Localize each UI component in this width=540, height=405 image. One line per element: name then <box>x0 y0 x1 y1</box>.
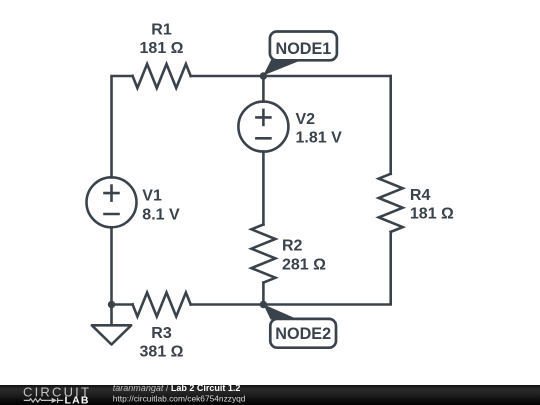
svg-text:R3: R3 <box>151 325 172 342</box>
svg-text:taranmangat / Lab 2 Circuit 1.: taranmangat / Lab 2 Circuit 1.2 <box>113 383 241 393</box>
svg-text:381 Ω: 381 Ω <box>140 344 184 361</box>
resistor R1 <box>133 64 191 88</box>
svg-text:181 Ω: 181 Ω <box>140 40 184 57</box>
wire V1 to bottom-left node <box>110 227 113 304</box>
svg-text:281 Ω: 281 Ω <box>282 256 326 273</box>
wire right rail bottom <box>191 232 391 305</box>
svg-text:V1: V1 <box>142 188 162 205</box>
logo resistor-diode squiggle <box>24 398 63 403</box>
ground <box>110 305 113 326</box>
svg-text:LAB: LAB <box>65 395 90 405</box>
resistor R2 <box>251 225 275 283</box>
wire R3 to left rail <box>112 303 133 306</box>
node B junction dot <box>260 301 267 308</box>
node NODE1 callout <box>263 32 337 76</box>
svg-text:NODE1: NODE1 <box>276 40 332 58</box>
CircuitLab logo wordmark <box>23 384 91 405</box>
wire R2 to node B <box>262 283 265 305</box>
wire V2 to R2 <box>262 152 265 225</box>
svg-text:R1: R1 <box>151 22 172 39</box>
svg-text:V2: V2 <box>296 111 316 128</box>
svg-text:1.81 V: 1.81 V <box>296 130 343 147</box>
wire right rail top <box>389 76 392 174</box>
wire top-left to R1 <box>112 76 133 177</box>
svg-text:R4: R4 <box>410 187 431 204</box>
svg-text:181 Ω: 181 Ω <box>410 206 454 223</box>
svg-text:http://circuitlab.com/cek6754n: http://circuitlab.com/cek6754nzzyqd <box>113 393 246 403</box>
svg-text:NODE2: NODE2 <box>275 325 331 343</box>
node NODE2 callout <box>263 304 336 347</box>
ground junction dot <box>108 301 115 308</box>
voltage source V1 <box>87 177 137 227</box>
svg-text:8.1 V: 8.1 V <box>142 206 180 223</box>
resistor R4 <box>379 174 403 232</box>
voltage source V2 <box>238 102 288 152</box>
wire node A down to V2 <box>262 76 265 102</box>
svg-text:R2: R2 <box>282 238 303 255</box>
node A junction dot <box>260 72 267 79</box>
resistor R3 <box>133 293 191 317</box>
wire R1 to node A and top-right corner <box>191 75 391 78</box>
